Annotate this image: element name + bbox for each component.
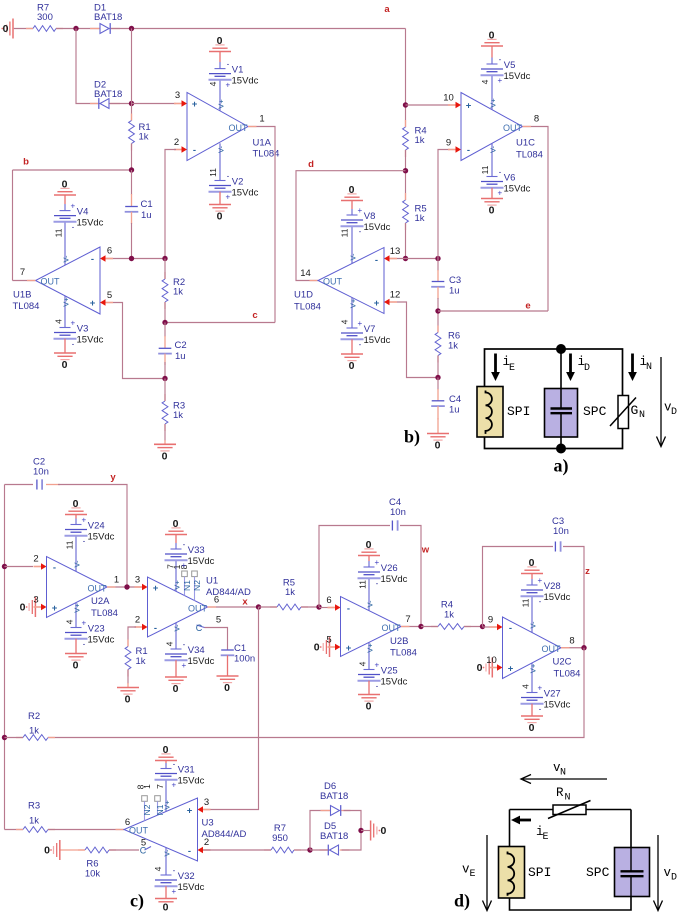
svg-text:-: - — [183, 640, 186, 649]
svg-text:11: 11 — [480, 165, 490, 174]
svg-text:TL084: TL084 — [390, 648, 417, 659]
svg-text:0: 0 — [529, 557, 535, 569]
svg-text:U2A: U2A — [91, 596, 110, 607]
junction — [435, 256, 440, 261]
svg-text:0: 0 — [62, 359, 68, 371]
junction — [403, 256, 408, 261]
svg-text:+: + — [537, 576, 542, 585]
svg-text:0: 0 — [529, 722, 535, 734]
svg-text:-: - — [72, 339, 75, 348]
pin 3 arrow (U1 +) — [135, 586, 144, 588]
svg-text:V25: V25 — [381, 666, 398, 677]
svg-text:+: + — [466, 101, 472, 112]
wire — [164, 379, 166, 402]
svg-text:0: 0 — [349, 360, 355, 372]
ground 0 above V26 — [368, 556, 370, 562]
svg-text:15Vdc: 15Vdc — [188, 656, 215, 667]
feedback loop C3 10n (node z) — [483, 547, 554, 627]
ground 0 above V8 — [351, 201, 353, 210]
U1A output wire (pin 1) — [248, 127, 275, 323]
svg-text:+: + — [181, 561, 186, 570]
voltage source V23 15Vdc — [71, 627, 82, 629]
resistor R4 1k — [405, 120, 407, 127]
current arrow iE (circuit d) — [519, 819, 531, 822]
svg-text:V-: V- — [162, 849, 171, 857]
svg-text:+: + — [171, 780, 176, 789]
ground 0 at U2C pin 10 — [491, 658, 493, 678]
capacitor SPC (circuit a) — [545, 389, 578, 438]
svg-text:N1: N1 — [155, 804, 165, 815]
ground 0 below V3 — [64, 339, 66, 353]
wire (U1D pin 12 to R6 node) — [397, 302, 438, 378]
voltage source V26 15Vdc — [368, 561, 370, 567]
svg-text:-: - — [91, 254, 94, 265]
current arrow iD (circuit a) — [569, 354, 572, 374]
junction — [403, 168, 408, 173]
resistor R3 1k (bottom) — [16, 829, 23, 831]
svg-text:SPC: SPC — [586, 865, 610, 880]
pin N1 (U1) — [182, 571, 188, 577]
svg-text:OUT: OUT — [41, 276, 61, 286]
junction — [73, 26, 78, 31]
svg-text:0: 0 — [224, 682, 230, 694]
resistor R1 1k — [131, 114, 133, 121]
wire (U1B pin 5 to C2 bottom node) — [113, 303, 165, 379]
svg-text:15Vdc: 15Vdc — [232, 76, 259, 87]
svg-text:15Vdc: 15Vdc — [504, 71, 531, 82]
svg-text:1k: 1k — [173, 410, 183, 421]
junction — [162, 320, 167, 325]
svg-text:0: 0 — [3, 23, 9, 35]
voltage arrow vD (circuit a) — [660, 357, 662, 446]
svg-text:0: 0 — [73, 659, 79, 671]
current arrow iN (circuit a) — [631, 354, 634, 374]
svg-text:1: 1 — [114, 575, 119, 586]
wire (node to U1A pin 3) — [132, 103, 177, 105]
wire (node to U2C pin 9) — [483, 626, 497, 628]
voltage source V32 15Vdc — [161, 874, 172, 876]
svg-text:V6: V6 — [504, 173, 516, 184]
node 13 row wire — [390, 258, 438, 260]
svg-text:0: 0 — [162, 450, 168, 462]
svg-text:+: + — [52, 603, 58, 614]
svg-text:2: 2 — [33, 554, 38, 565]
svg-text:x: x — [242, 597, 248, 608]
ground 0 below V7 — [351, 339, 353, 354]
svg-text:N: N — [565, 793, 571, 804]
svg-text:10: 10 — [443, 93, 454, 104]
junction — [316, 604, 321, 609]
wire — [164, 259, 166, 280]
svg-text:-: - — [227, 60, 230, 69]
wire (rail to R3) — [5, 829, 24, 831]
wire (R3 to U3 output pin 6) — [48, 829, 124, 831]
svg-text:-: - — [359, 340, 362, 349]
node x wire down to U3 pin 3 — [203, 607, 259, 810]
svg-text:V27: V27 — [544, 689, 561, 700]
svg-text:V7: V7 — [364, 324, 376, 335]
svg-text:11: 11 — [357, 580, 367, 589]
diode D6 BAT18 loop — [310, 811, 331, 851]
opamp U3 AD844/AD — [124, 798, 198, 861]
U2C output wire (pin 8) — [561, 647, 584, 649]
wire (U1 pin 2 to R1) — [128, 627, 136, 647]
wire node a to R4 chain — [405, 29, 407, 128]
voltage arrow vD (circuit d) — [657, 835, 659, 910]
svg-text:OUT: OUT — [229, 123, 249, 133]
svg-text:4: 4 — [64, 619, 74, 624]
svg-text:SPI: SPI — [507, 404, 530, 419]
svg-text:11: 11 — [339, 228, 349, 237]
voltage source V31 15Vdc — [165, 763, 167, 769]
svg-text:0: 0 — [44, 844, 50, 856]
junction — [435, 375, 440, 380]
resistor R7 950 (bottom) — [264, 849, 271, 851]
junction — [581, 645, 586, 650]
svg-text:2: 2 — [135, 615, 140, 626]
svg-text:N2: N2 — [142, 804, 152, 815]
ground 0 below V6 — [491, 188, 493, 199]
resistor R2 1k — [164, 272, 166, 279]
svg-text:300: 300 — [37, 12, 53, 23]
resistor R7 — [26, 28, 33, 30]
V- power lead U2C — [531, 596, 533, 632]
svg-text:7: 7 — [20, 267, 25, 278]
svg-text:E: E — [470, 869, 476, 880]
svg-text:TL084: TL084 — [516, 150, 543, 161]
svg-text:+: + — [81, 516, 86, 525]
svg-text:1k: 1k — [139, 132, 149, 143]
svg-text:15Vdc: 15Vdc — [504, 183, 531, 194]
svg-text:TL084: TL084 — [91, 608, 118, 619]
svg-text:0: 0 — [173, 518, 179, 530]
ground 0 below V23 — [75, 639, 77, 654]
svg-text:N2: N2 — [192, 580, 202, 591]
svg-text:a: a — [384, 4, 390, 15]
voltage source V7 15Vdc — [347, 327, 358, 329]
svg-text:-: - — [183, 540, 186, 549]
svg-text:8: 8 — [569, 636, 574, 647]
svg-text:-: - — [53, 563, 56, 574]
svg-text:15Vdc: 15Vdc — [381, 676, 408, 687]
voltage source V34 15Vdc — [171, 648, 182, 650]
V- power lead U1 — [175, 623, 177, 649]
capacitor C2 10n — [5, 484, 34, 486]
svg-text:15Vdc: 15Vdc — [88, 634, 115, 645]
svg-text:TL084: TL084 — [554, 669, 581, 680]
svg-text:+: + — [537, 684, 542, 693]
opamp U1B TL084 — [36, 247, 101, 314]
U1B output wire (pin 7) — [13, 280, 36, 282]
V- power lead U1D — [351, 226, 353, 263]
feedback loop C4 10n (node w) — [319, 526, 390, 608]
svg-text:U1: U1 — [206, 576, 218, 587]
svg-text:-: - — [227, 172, 230, 181]
node z feedback wire to R2 — [48, 648, 584, 738]
voltage source V33 15Vdc — [175, 543, 177, 549]
svg-text:7: 7 — [155, 784, 165, 789]
junction — [124, 584, 129, 589]
voltage source V27 15Vdc — [527, 692, 538, 694]
opamp U2B TL084 — [341, 597, 402, 657]
svg-text:c): c) — [130, 891, 144, 912]
svg-text:0: 0 — [163, 901, 169, 913]
svg-text:1k: 1k — [173, 287, 183, 298]
V- power lead U1B — [64, 222, 66, 265]
pin 6 arrow (U2B -) — [328, 607, 337, 609]
wire — [5, 737, 24, 739]
diode D2 BAT18 — [90, 103, 100, 105]
svg-text:E: E — [509, 363, 515, 374]
svg-text:2: 2 — [204, 837, 209, 848]
resistor R6 1k — [437, 326, 439, 333]
pin 13 arrow (U1D -) — [389, 258, 398, 260]
svg-text:11: 11 — [208, 168, 218, 177]
svg-text:0: 0 — [489, 204, 495, 216]
wire (U1C pin 9 down to row 13) — [438, 150, 450, 259]
svg-text:y: y — [110, 472, 116, 483]
V+ power lead U2A — [75, 603, 77, 628]
pin 6 arrow (U1B -) — [105, 258, 114, 260]
node d wire (to U1D output pin 14) — [296, 171, 406, 281]
capacitor SPC (circuit d) — [615, 848, 650, 897]
svg-text:+: + — [90, 298, 96, 309]
svg-text:U1A: U1A — [253, 138, 272, 149]
resistor R5 1k — [405, 193, 407, 200]
svg-text:V-: V- — [72, 560, 81, 568]
svg-text:N: N — [646, 362, 652, 373]
svg-text:4: 4 — [153, 866, 163, 871]
ground 0 (left of R7) — [12, 19, 14, 39]
svg-text:C3: C3 — [449, 275, 461, 286]
svg-text:4: 4 — [164, 641, 174, 646]
svg-text:BAT18: BAT18 — [94, 12, 122, 23]
svg-text:6: 6 — [107, 246, 112, 257]
svg-text:U2C: U2C — [553, 657, 572, 668]
ground 0 above V31 — [165, 761, 167, 764]
wire — [203, 849, 271, 851]
svg-text:15Vdc: 15Vdc — [544, 592, 571, 603]
svg-text:R2: R2 — [28, 711, 40, 722]
svg-text:C1: C1 — [234, 643, 246, 654]
svg-text:-: - — [539, 597, 542, 606]
svg-text:R: R — [556, 786, 564, 800]
svg-text:4: 4 — [480, 79, 490, 84]
inductor SPI (circuit a) — [477, 387, 503, 438]
svg-text:0: 0 — [73, 498, 79, 510]
svg-text:V-: V- — [365, 600, 374, 608]
svg-text:V3: V3 — [77, 324, 89, 335]
svg-text:C2: C2 — [175, 340, 187, 351]
svg-text:c: c — [252, 310, 257, 321]
voltage source V25 15Vdc — [364, 669, 375, 671]
svg-text:D: D — [671, 873, 677, 884]
svg-text:5: 5 — [326, 635, 331, 646]
ground 0 at U2A pin 3 — [34, 597, 36, 617]
pin 10 arrow (U2C +) — [490, 667, 499, 669]
svg-text:4: 4 — [520, 684, 530, 689]
pin 2 arrow (U3 -) — [202, 849, 211, 851]
voltage source V5 15Vdc — [491, 58, 493, 65]
svg-text:0: 0 — [349, 184, 355, 196]
svg-text:1k: 1k — [448, 341, 458, 352]
V+ power lead U1C — [491, 75, 493, 109]
svg-text:0: 0 — [217, 210, 223, 222]
svg-text:E: E — [543, 832, 549, 843]
svg-text:1u: 1u — [449, 405, 460, 416]
capacitor C3 1u — [437, 259, 439, 272]
svg-text:1u: 1u — [175, 351, 186, 362]
svg-text:-: - — [467, 145, 470, 156]
svg-text:d): d) — [454, 891, 470, 912]
junction — [2, 564, 7, 569]
svg-text:1k: 1k — [285, 587, 295, 598]
pin 3 arrow (U2A +) — [34, 606, 43, 608]
voltage arrow vN (circuit d) — [523, 778, 607, 780]
svg-text:1k: 1k — [29, 816, 39, 827]
junction — [307, 847, 312, 852]
capacitor C2 1u — [164, 323, 166, 338]
pin 5 arrow (U2B +) — [328, 646, 337, 648]
ground 0 below V25 — [368, 681, 370, 695]
svg-text:8: 8 — [534, 114, 539, 125]
svg-text:950: 950 — [272, 833, 288, 844]
voltage source V24 15Vdc — [75, 519, 77, 525]
svg-text:V+: V+ — [216, 99, 225, 109]
svg-text:-: - — [499, 168, 502, 177]
ground 0 above V1 — [219, 52, 221, 63]
V+ power lead U2B — [368, 642, 370, 669]
svg-text:+: + — [181, 661, 186, 670]
junction — [256, 604, 261, 609]
svg-text:3: 3 — [33, 595, 38, 606]
svg-text:+: + — [81, 619, 86, 628]
svg-text:10n: 10n — [553, 526, 569, 537]
svg-text:e: e — [525, 301, 530, 312]
svg-text:V-: V- — [172, 624, 181, 632]
resistor R5 1k (bottom) — [270, 606, 277, 608]
svg-text:+: + — [225, 81, 230, 90]
rheostat RN (circuit d) — [553, 805, 586, 815]
svg-text:10n: 10n — [33, 467, 49, 478]
svg-text:U3: U3 — [202, 818, 214, 829]
svg-text:SPC: SPC — [583, 404, 607, 419]
svg-text:SPI: SPI — [528, 865, 551, 880]
svg-text:+: + — [192, 99, 198, 110]
ground 0 at U2B pin 5 — [329, 637, 331, 657]
circuit d) loop box — [510, 810, 632, 911]
svg-text:1u: 1u — [449, 286, 460, 297]
node e wire — [438, 310, 548, 312]
pin N1 (U3) — [155, 796, 161, 802]
current arrow iE (circuit a) — [494, 354, 497, 374]
svg-text:-: - — [376, 579, 379, 588]
svg-text:V-: V- — [528, 621, 537, 629]
svg-text:0: 0 — [173, 683, 179, 695]
svg-text:V+: V+ — [172, 580, 181, 590]
opamp U1C TL084 — [461, 93, 523, 161]
wire C2 to pin5 node — [164, 362, 166, 379]
svg-text:V31: V31 — [178, 765, 195, 776]
opamp U2C TL084 — [503, 617, 562, 679]
voltage source V1 15Vdc — [219, 62, 221, 69]
svg-text:0: 0 — [314, 641, 320, 653]
svg-text:4: 4 — [357, 661, 367, 666]
pin C / 5 of U1 and capacitor C1 100n — [197, 625, 205, 628]
pin 2 arrow (U2A -) — [34, 566, 43, 568]
svg-text:OUT: OUT — [382, 623, 402, 633]
svg-text:w: w — [421, 545, 430, 556]
svg-text:0: 0 — [366, 539, 372, 551]
circuit a) middle branch wire — [560, 349, 562, 449]
wire — [310, 849, 328, 851]
ground 0 below V2 — [219, 192, 221, 205]
svg-text:V1: V1 — [232, 65, 244, 76]
pin 9 arrow (U1C -) — [448, 149, 457, 151]
svg-text:b): b) — [404, 427, 420, 448]
svg-text:V-: V- — [488, 145, 497, 153]
voltage source V8 15Vdc — [351, 209, 353, 215]
svg-text:V+: V+ — [488, 98, 497, 108]
svg-text:V+: V+ — [348, 298, 357, 308]
svg-text:5: 5 — [107, 290, 112, 301]
V+ power lead U3 — [165, 780, 167, 812]
ground 0 below V27 — [531, 704, 533, 716]
junction — [480, 624, 485, 629]
junction — [418, 624, 423, 629]
svg-text:U2B: U2B — [390, 636, 408, 647]
capacitor C4 1u — [437, 378, 439, 391]
svg-text:V4: V4 — [77, 207, 89, 218]
svg-text:V-: V- — [348, 253, 357, 261]
junction — [129, 167, 134, 172]
svg-text:V34: V34 — [188, 645, 205, 656]
wire — [111, 28, 406, 30]
svg-text:1k: 1k — [415, 135, 425, 146]
svg-text:1k: 1k — [136, 656, 146, 667]
svg-text:OUT: OUT — [129, 825, 149, 835]
svg-text:+: + — [374, 298, 380, 309]
svg-text:R3: R3 — [28, 801, 40, 812]
svg-text:D: D — [671, 407, 677, 418]
wire — [131, 144, 133, 171]
svg-text:-: - — [539, 704, 542, 713]
ground 0 above V28 — [531, 574, 533, 580]
node 6 row wire (U1B pin 6 to R2 top) — [106, 258, 165, 260]
opamp U1 AD844/AD — [148, 577, 208, 637]
left feedback rail (y row to R3 row) — [4, 485, 6, 830]
pin 12 arrow (U1D +) — [389, 301, 398, 303]
resistor R3 1k — [164, 394, 166, 401]
svg-text:C: C — [196, 623, 203, 633]
svg-text:5: 5 — [216, 615, 221, 626]
svg-text:+: + — [497, 76, 502, 85]
V- power lead U2A — [75, 536, 77, 572]
svg-text:15Vdc: 15Vdc — [178, 882, 205, 893]
svg-text:OUT: OUT — [188, 603, 208, 613]
wire — [294, 849, 310, 851]
svg-text:9: 9 — [446, 138, 451, 149]
svg-text:0: 0 — [489, 29, 495, 41]
svg-text:4: 4 — [208, 81, 218, 86]
diode D1 BAT18 — [90, 28, 100, 30]
svg-text:D: D — [584, 363, 590, 374]
svg-text:OUT: OUT — [542, 644, 562, 654]
svg-text:10k: 10k — [85, 869, 101, 880]
svg-text:+: + — [153, 583, 159, 594]
node b wire — [13, 169, 132, 171]
junction — [2, 735, 7, 740]
